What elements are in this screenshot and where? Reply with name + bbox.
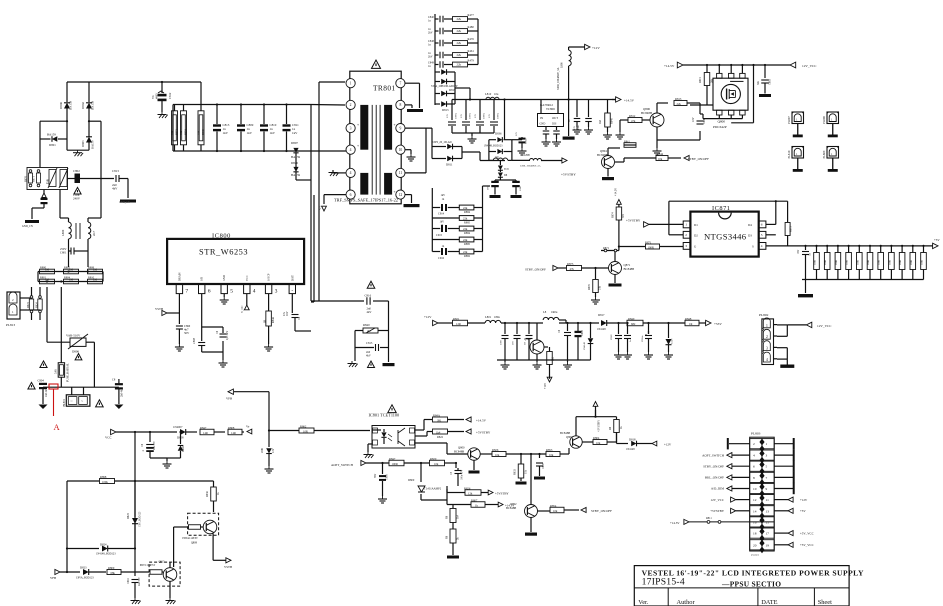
svg-text:17: 17 bbox=[766, 532, 770, 536]
svg-text:+: + bbox=[394, 190, 396, 194]
svg-text:68k: 68k bbox=[111, 571, 116, 575]
svg-text:4p7 3kV: 4p7 3kV bbox=[226, 331, 229, 340]
svg-text:C8V_BOD123: C8V_BOD123 bbox=[139, 511, 142, 527]
svg-text:1k4: 1k4 bbox=[436, 430, 441, 434]
svg-text:+5V_VCC: +5V_VCC bbox=[800, 531, 814, 535]
svg-text:R870: R870 bbox=[25, 176, 28, 182]
svg-text:VAR-510V: VAR-510V bbox=[66, 334, 81, 338]
svg-text:22k: 22k bbox=[677, 102, 682, 106]
svg-text:10R: 10R bbox=[198, 130, 201, 135]
svg-text:22u 35V: 22u 35V bbox=[153, 441, 156, 450]
svg-text:R823: R823 bbox=[27, 302, 30, 308]
svg-text:IC801 TCET1100: IC801 TCET1100 bbox=[369, 413, 400, 418]
svg-text:+14.5V: +14.5V bbox=[664, 64, 675, 68]
svg-text:S/B: S/B bbox=[201, 277, 204, 281]
svg-text:PL802: PL802 bbox=[759, 313, 769, 317]
svg-text:11k: 11k bbox=[525, 469, 528, 474]
svg-text:10k: 10k bbox=[549, 453, 554, 457]
svg-text:4kV: 4kV bbox=[112, 187, 118, 191]
svg-text:2m7: 2m7 bbox=[92, 230, 96, 236]
svg-text:100R: 100R bbox=[921, 260, 924, 265]
svg-text:+5VSTBY: +5VSTBY bbox=[626, 219, 641, 223]
svg-text:16V: 16V bbox=[286, 311, 289, 316]
svg-text:FUSE_RADIAL: FUSE_RADIAL bbox=[66, 363, 70, 382]
svg-text:1R: 1R bbox=[689, 322, 692, 326]
svg-text:1: 1 bbox=[350, 82, 352, 86]
svg-text:R805: R805 bbox=[64, 265, 71, 269]
svg-text:1N4148_BOD123: 1N4148_BOD123 bbox=[96, 553, 116, 556]
svg-text:1000u: 1000u bbox=[497, 112, 500, 119]
svg-text:STBY_ON/OFF: STBY_ON/OFF bbox=[525, 268, 546, 272]
svg-text:+5V: +5V bbox=[934, 238, 940, 242]
svg-text:5A8: 5A8 bbox=[55, 369, 58, 374]
svg-text:1kV: 1kV bbox=[247, 131, 253, 135]
svg-text:R813: R813 bbox=[675, 97, 682, 101]
svg-text:C802: C802 bbox=[73, 169, 80, 173]
svg-text:D4: D4 bbox=[748, 223, 752, 227]
svg-text:PL808: PL808 bbox=[822, 116, 826, 124]
svg-text:C824: C824 bbox=[525, 138, 528, 144]
svg-text:10k: 10k bbox=[553, 509, 558, 513]
svg-text:6: 6 bbox=[350, 193, 352, 197]
svg-text:DRAIN: DRAIN bbox=[178, 272, 181, 281]
svg-text:AOPT_SWITCH: AOPT_SWITCH bbox=[702, 453, 725, 457]
svg-text:Q800: Q800 bbox=[718, 120, 726, 124]
svg-text:—PPSU SECTIO: —PPSU SECTIO bbox=[721, 580, 781, 589]
svg-text:C812: C812 bbox=[168, 92, 172, 99]
svg-text:PL810: PL810 bbox=[787, 150, 791, 158]
svg-text:STBY_ON/OFF: STBY_ON/OFF bbox=[703, 464, 724, 468]
svg-text:10R: 10R bbox=[180, 130, 183, 135]
svg-text:R801: R801 bbox=[40, 275, 47, 279]
svg-text:Ver.: Ver. bbox=[638, 599, 649, 606]
svg-text:C914: C914 bbox=[438, 212, 445, 216]
svg-text:R807: R807 bbox=[471, 498, 478, 502]
svg-text:1k4: 1k4 bbox=[457, 514, 460, 519]
svg-text:D817: D817 bbox=[598, 313, 605, 317]
svg-text:OUT: OUT bbox=[552, 116, 558, 120]
svg-text:4: 4 bbox=[350, 171, 352, 175]
svg-text:25V: 25V bbox=[488, 114, 491, 118]
svg-text:R884: R884 bbox=[464, 231, 471, 235]
svg-text:100n 45V: 100n 45V bbox=[461, 470, 464, 480]
svg-text:VCC: VCC bbox=[246, 275, 249, 281]
svg-text:10u: 10u bbox=[494, 92, 499, 96]
svg-text:VSTB: VSTB bbox=[224, 565, 232, 569]
svg-text:BA159: BA159 bbox=[91, 140, 95, 149]
svg-text:Q808: Q808 bbox=[191, 542, 198, 545]
svg-text:D826: D826 bbox=[291, 161, 298, 165]
svg-text:VCC: VCC bbox=[105, 436, 112, 440]
svg-text:TL431AAMP2: TL431AAMP2 bbox=[424, 487, 442, 491]
svg-text:R871: R871 bbox=[33, 176, 36, 182]
svg-text:2: 2 bbox=[350, 103, 352, 107]
svg-text:10: 10 bbox=[399, 148, 403, 152]
svg-text:R853: R853 bbox=[546, 448, 553, 452]
svg-text:7: 7 bbox=[185, 289, 188, 295]
svg-text:12: 12 bbox=[399, 193, 403, 197]
svg-text:C807: C807 bbox=[542, 463, 545, 469]
svg-text:R822: R822 bbox=[437, 435, 444, 439]
svg-text:C838: C838 bbox=[610, 334, 613, 340]
svg-text:NTGS3446: NTGS3446 bbox=[704, 232, 747, 242]
svg-text:R840: R840 bbox=[363, 323, 370, 327]
svg-text:11: 11 bbox=[399, 171, 403, 175]
svg-text:TC8: TC8 bbox=[504, 168, 509, 171]
svg-text:R868: R868 bbox=[202, 129, 205, 135]
svg-text:2: 2 bbox=[685, 233, 687, 237]
svg-text:+: + bbox=[357, 123, 359, 127]
svg-text:S/OCP: S/OCP bbox=[268, 273, 271, 281]
svg-text:ZD8: ZD8 bbox=[261, 447, 264, 453]
svg-text:R882: R882 bbox=[464, 254, 471, 258]
svg-text:3: 3 bbox=[685, 244, 687, 248]
svg-text:D818: D818 bbox=[629, 438, 636, 442]
svg-text:Sheet: Sheet bbox=[818, 599, 832, 606]
svg-text:C834u: C834u bbox=[641, 335, 644, 342]
svg-text:R876: R876 bbox=[588, 284, 591, 290]
svg-text:12V_VCC: 12V_VCC bbox=[802, 64, 817, 68]
svg-text:1: 1 bbox=[766, 442, 768, 446]
svg-text:1000: 1000 bbox=[500, 339, 503, 345]
svg-text:D3: D3 bbox=[748, 233, 752, 237]
svg-text:R873: R873 bbox=[790, 226, 793, 232]
svg-text:25V: 25V bbox=[573, 126, 576, 130]
svg-text:TH8: TH8 bbox=[47, 178, 50, 184]
svg-text:PL813: PL813 bbox=[6, 323, 15, 327]
svg-text:STPS_20_10LAD: STPS_20_10LAD bbox=[432, 141, 452, 144]
svg-text:1kV: 1kV bbox=[270, 131, 276, 135]
svg-text:12V_VCC: 12V_VCC bbox=[817, 324, 832, 328]
svg-text:25V: 25V bbox=[460, 114, 463, 118]
svg-text:VSTB: VSTB bbox=[155, 307, 163, 311]
svg-text:C815: C815 bbox=[366, 341, 373, 345]
svg-text:GND: GND bbox=[540, 123, 546, 126]
svg-text:Q805: Q805 bbox=[524, 337, 531, 341]
svg-text:R476: R476 bbox=[468, 37, 475, 41]
svg-text:1kV: 1kV bbox=[441, 194, 446, 197]
svg-text:+53V: +53V bbox=[714, 322, 722, 326]
svg-text:+12V: +12V bbox=[800, 498, 808, 502]
svg-text:PL809: PL809 bbox=[822, 150, 826, 158]
svg-text:1R0u: 1R0u bbox=[551, 310, 558, 314]
svg-text:R815: R815 bbox=[699, 77, 702, 83]
svg-text:31k: 31k bbox=[599, 285, 602, 290]
svg-text:D823: D823 bbox=[80, 566, 87, 570]
svg-text:47u: 47u bbox=[283, 311, 286, 316]
svg-text:4: 4 bbox=[766, 358, 768, 362]
svg-text:+5VSTBY: +5VSTBY bbox=[495, 492, 509, 496]
svg-text:25V: 25V bbox=[474, 114, 477, 118]
svg-text:50V: 50V bbox=[184, 331, 190, 335]
svg-text:4: 4 bbox=[753, 454, 755, 458]
svg-text:1R: 1R bbox=[263, 320, 267, 323]
svg-text:R862: R862 bbox=[300, 424, 307, 428]
svg-text:18: 18 bbox=[753, 532, 757, 536]
svg-text:R824: R824 bbox=[36, 302, 39, 308]
svg-text:STR_W6253: STR_W6253 bbox=[199, 248, 248, 257]
svg-text:180u: 180u bbox=[494, 315, 500, 319]
svg-text:PL801: PL801 bbox=[62, 398, 66, 406]
svg-text:9: 9 bbox=[766, 487, 768, 491]
svg-text:C801: C801 bbox=[60, 251, 67, 255]
svg-text:D803: D803 bbox=[81, 140, 85, 147]
svg-text:100R: 100R bbox=[648, 245, 654, 249]
svg-text:R840: R840 bbox=[628, 317, 635, 321]
svg-text:1u0: 1u0 bbox=[495, 156, 500, 159]
svg-text:R811: R811 bbox=[706, 517, 712, 520]
svg-text:10k: 10k bbox=[596, 441, 601, 445]
svg-text:PDTC114EST: PDTC114EST bbox=[140, 564, 156, 567]
svg-text:10R: 10R bbox=[171, 130, 174, 135]
svg-text:+5V: +5V bbox=[800, 509, 806, 513]
svg-text:BC848B: BC848B bbox=[506, 506, 516, 510]
svg-text:PL803: PL803 bbox=[751, 553, 759, 557]
svg-text:9: 9 bbox=[399, 126, 401, 130]
svg-text:STBY_ON/OFF: STBY_ON/OFF bbox=[591, 509, 612, 513]
svg-text:C8VA_BOD123: C8VA_BOD123 bbox=[76, 577, 94, 580]
svg-text:Author: Author bbox=[677, 599, 696, 606]
svg-text:Q803: Q803 bbox=[566, 435, 573, 439]
svg-text:R874: R874 bbox=[612, 212, 615, 218]
svg-text:2: 2 bbox=[766, 335, 768, 339]
svg-text:3: 3 bbox=[350, 126, 352, 130]
svg-text:R84A: R84A bbox=[433, 413, 441, 417]
svg-text:2kV: 2kV bbox=[428, 56, 433, 59]
svg-text:3: 3 bbox=[766, 454, 768, 458]
svg-text:100R: 100R bbox=[899, 260, 902, 265]
svg-text:R809: R809 bbox=[108, 566, 115, 570]
svg-text:BC848B: BC848B bbox=[454, 450, 464, 454]
svg-text:C804: C804 bbox=[38, 379, 45, 383]
svg-text:A: A bbox=[54, 422, 61, 432]
svg-text:22k: 22k bbox=[457, 41, 462, 45]
svg-text:C53V: C53V bbox=[671, 338, 674, 344]
svg-text:BA159: BA159 bbox=[69, 100, 73, 110]
svg-text:BKL_ON/OFF: BKL_ON/OFF bbox=[705, 476, 724, 480]
svg-text:10k: 10k bbox=[434, 462, 439, 466]
svg-text:1N4148: 1N4148 bbox=[626, 448, 635, 451]
svg-text:GND_CN: GND_CN bbox=[22, 225, 33, 228]
svg-text:1kV: 1kV bbox=[223, 131, 229, 135]
svg-text:R820: R820 bbox=[430, 457, 437, 461]
svg-text:D804: D804 bbox=[182, 445, 185, 452]
svg-text:R826: R826 bbox=[464, 486, 471, 490]
svg-text:22k: 22k bbox=[457, 29, 462, 33]
svg-text:12: 12 bbox=[753, 498, 757, 502]
svg-text:R821: R821 bbox=[453, 317, 460, 321]
svg-text:1000u: 1000u bbox=[469, 112, 472, 119]
svg-text:10k: 10k bbox=[495, 453, 500, 457]
svg-text:R836: R836 bbox=[206, 491, 209, 497]
svg-text:PDTA114EST: PDTA114EST bbox=[182, 537, 198, 540]
svg-text:25V: 25V bbox=[446, 114, 449, 118]
svg-text:16V: 16V bbox=[797, 249, 800, 254]
svg-text:22V: 22V bbox=[515, 132, 518, 136]
svg-text:+5VSTBY: +5VSTBY bbox=[476, 431, 491, 435]
svg-text:R800: R800 bbox=[40, 265, 47, 269]
svg-text:2u2 50V: 2u2 50V bbox=[138, 577, 141, 586]
svg-text:TC806: TC806 bbox=[546, 107, 555, 111]
svg-text:R461: R461 bbox=[468, 49, 475, 53]
svg-text:+14.5V: +14.5V bbox=[476, 419, 487, 423]
svg-text:16V: 16V bbox=[512, 341, 515, 345]
svg-text:GND: GND bbox=[223, 275, 226, 281]
svg-text:1kV: 1kV bbox=[292, 131, 298, 135]
svg-text:330R_100uBKT_3A: 330R_100uBKT_3A bbox=[557, 68, 560, 90]
svg-text:4kV: 4kV bbox=[367, 310, 373, 314]
svg-text:D802: D802 bbox=[81, 102, 85, 109]
svg-text:682: 682 bbox=[631, 322, 636, 326]
svg-text:R808: R808 bbox=[228, 426, 235, 430]
svg-text:-: - bbox=[291, 288, 293, 294]
svg-text:+: + bbox=[394, 123, 396, 127]
svg-text:D/ST: D/ST bbox=[291, 275, 294, 281]
svg-text:4: 4 bbox=[761, 244, 763, 248]
svg-text:R480: R480 bbox=[468, 25, 475, 29]
svg-text:1000u: 1000u bbox=[483, 112, 486, 119]
svg-text:L810: L810 bbox=[485, 92, 492, 96]
svg-text:R804: R804 bbox=[64, 275, 71, 279]
svg-text:14: 14 bbox=[753, 509, 757, 513]
svg-text:+14.5V: +14.5V bbox=[670, 521, 680, 525]
svg-text:L8: L8 bbox=[543, 310, 547, 314]
svg-text:R846: R846 bbox=[611, 118, 614, 124]
svg-text:D801: D801 bbox=[49, 143, 56, 147]
svg-text:R477: R477 bbox=[468, 13, 475, 17]
svg-text:C916: C916 bbox=[438, 256, 445, 260]
svg-text:3: 3 bbox=[766, 347, 768, 351]
svg-text:L808: L808 bbox=[524, 154, 530, 157]
svg-text:+5VSTBY: +5VSTBY bbox=[561, 173, 576, 177]
svg-text:12V_VCC: 12V_VCC bbox=[710, 498, 724, 502]
svg-text:330R_100uBKT_3A: 330R_100uBKT_3A bbox=[520, 165, 541, 168]
svg-text:R844: R844 bbox=[657, 152, 664, 156]
svg-text:VFB: VFB bbox=[226, 397, 232, 401]
svg-text:11: 11 bbox=[766, 498, 770, 502]
svg-text:47k: 47k bbox=[570, 267, 575, 271]
svg-text:R810: R810 bbox=[88, 275, 95, 279]
svg-text:R848: R848 bbox=[685, 317, 692, 321]
svg-text:D813: D813 bbox=[442, 108, 449, 112]
svg-text:R804: R804 bbox=[593, 436, 600, 440]
svg-text:R847: R847 bbox=[200, 426, 207, 430]
svg-text:4: 4 bbox=[253, 289, 256, 295]
svg-text:2n0 4kV: 2n0 4kV bbox=[45, 388, 48, 397]
svg-text:C816: C816 bbox=[127, 578, 130, 584]
svg-text:D2: D2 bbox=[694, 233, 698, 237]
svg-text:D1: D1 bbox=[694, 223, 698, 227]
svg-text:DATE: DATE bbox=[761, 599, 777, 606]
svg-text:R898: R898 bbox=[100, 475, 107, 479]
svg-text:C816: C816 bbox=[365, 294, 372, 298]
svg-text:10R: 10R bbox=[303, 429, 308, 433]
svg-text:6: 6 bbox=[208, 289, 211, 295]
svg-text:D825: D825 bbox=[127, 512, 130, 519]
svg-text:1k8: 1k8 bbox=[599, 119, 602, 124]
svg-text:R884: R884 bbox=[464, 210, 471, 214]
svg-text:+: + bbox=[357, 144, 359, 148]
svg-text:4kV: 4kV bbox=[366, 354, 371, 358]
svg-text:12k: 12k bbox=[468, 491, 473, 495]
svg-text:1N4148: 1N4148 bbox=[597, 328, 606, 331]
svg-text:R854: R854 bbox=[550, 504, 557, 508]
svg-text:C806: C806 bbox=[386, 474, 389, 480]
svg-text:R833: R833 bbox=[514, 469, 517, 475]
svg-text:36V: 36V bbox=[374, 473, 377, 478]
svg-text:100R: 100R bbox=[888, 260, 891, 265]
svg-text:C813: C813 bbox=[112, 169, 119, 173]
svg-text:L806: L806 bbox=[561, 62, 564, 68]
svg-text:D836: D836 bbox=[495, 132, 502, 136]
svg-text:R847: R847 bbox=[389, 457, 396, 461]
svg-text:22k: 22k bbox=[457, 53, 462, 57]
svg-text:17IPS15-4: 17IPS15-4 bbox=[642, 576, 685, 587]
svg-text:47k: 47k bbox=[631, 119, 636, 123]
svg-text:STBY_ON/OFF: STBY_ON/OFF bbox=[688, 157, 709, 161]
svg-text:+14.5V: +14.5V bbox=[624, 99, 635, 103]
svg-text:2: 2 bbox=[753, 442, 755, 446]
svg-text:D800: D800 bbox=[408, 478, 415, 482]
svg-text:8: 8 bbox=[399, 103, 401, 107]
svg-text:PDC642P: PDC642P bbox=[713, 125, 727, 129]
svg-text:22k: 22k bbox=[457, 63, 462, 67]
svg-text:+: + bbox=[142, 449, 144, 453]
svg-text:10k: 10k bbox=[658, 157, 663, 161]
svg-text:100k: 100k bbox=[102, 480, 108, 484]
svg-text:TR801: TR801 bbox=[373, 84, 396, 93]
svg-text:L800: L800 bbox=[61, 229, 65, 236]
svg-text:14R: 14R bbox=[231, 431, 236, 435]
svg-text:R885: R885 bbox=[464, 220, 471, 224]
svg-text:R812: R812 bbox=[629, 114, 636, 118]
svg-text:BC848B: BC848B bbox=[624, 267, 635, 271]
svg-text:7: 7 bbox=[766, 476, 768, 480]
svg-text:4: 4 bbox=[350, 148, 352, 152]
svg-text:R873: R873 bbox=[176, 129, 179, 135]
svg-text:391: 391 bbox=[622, 213, 625, 218]
svg-text:R874: R874 bbox=[185, 129, 188, 135]
svg-text:DIS: DIS bbox=[552, 123, 557, 126]
svg-text:+5VSTBY: +5VSTBY bbox=[597, 420, 601, 432]
svg-text:L801: L801 bbox=[485, 315, 492, 319]
svg-text:+12V: +12V bbox=[424, 315, 432, 319]
svg-text:D824: D824 bbox=[100, 543, 107, 547]
svg-text:BC848B: BC848B bbox=[597, 153, 608, 157]
svg-text:+14.5V: +14.5V bbox=[615, 188, 618, 196]
svg-text:1000u: 1000u bbox=[455, 112, 458, 119]
svg-text:R861: R861 bbox=[624, 141, 630, 144]
svg-text:C863: C863 bbox=[769, 79, 772, 85]
svg-text:+5V_VCC: +5V_VCC bbox=[800, 543, 814, 547]
svg-text:D807: D807 bbox=[291, 141, 298, 145]
svg-text:D800: D800 bbox=[59, 102, 63, 109]
svg-text:100u: 100u bbox=[519, 185, 522, 191]
svg-text:30n: 30n bbox=[757, 80, 760, 85]
svg-text:100R: 100R bbox=[856, 260, 859, 265]
svg-text:PL803: PL803 bbox=[751, 432, 761, 436]
svg-text:R846: R846 bbox=[271, 316, 275, 323]
svg-text:22k: 22k bbox=[457, 17, 462, 21]
svg-text:R808: R808 bbox=[88, 265, 95, 269]
svg-text:VFB: VFB bbox=[50, 576, 56, 580]
svg-text:1: 1 bbox=[766, 324, 768, 328]
svg-text:100R: 100R bbox=[392, 462, 398, 466]
svg-text:13: 13 bbox=[766, 509, 770, 513]
svg-text:5: 5 bbox=[766, 465, 768, 469]
svg-text:100R: 100R bbox=[846, 260, 849, 265]
svg-text:GND_CN: GND_CN bbox=[119, 201, 130, 204]
